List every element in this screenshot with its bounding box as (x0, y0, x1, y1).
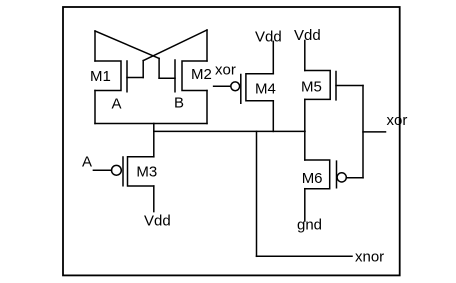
transistor M1 (95, 61, 127, 92)
wire M6 bubble lead (346, 177, 363, 179)
transistor M2 (175, 60, 207, 92)
svg-text:M3: M3 (136, 163, 157, 180)
svg-text:Vdd: Vdd (294, 27, 321, 44)
wire M5 Vdd riser (304, 41, 306, 71)
wire M3 source to Vdd (153, 186, 155, 212)
transistor M3 (123, 157, 154, 186)
wire M4 Vdd riser (272, 41, 274, 73)
wire M2 gate lead (159, 77, 175, 79)
wire M1 gate lead (127, 77, 143, 79)
svg-text:B: B (174, 95, 184, 112)
wire M6 source to gnd (304, 189, 306, 221)
svg-text:gnd: gnd (297, 217, 322, 234)
wire M4 source drop (272, 101, 274, 132)
wire xnor drop (256, 131, 258, 256)
svg-text:xor: xor (387, 112, 408, 129)
wire A input lead (93, 169, 111, 171)
wire cross-couple diagonal from M2 drain to M1 gate (143, 30, 207, 61)
wire M2 gate stub (158, 58, 160, 78)
svg-text:M1: M1 (90, 68, 111, 85)
wire M3 drain riser (153, 124, 155, 157)
wire M2 source drop (206, 91, 208, 124)
wire xnor line (257, 255, 353, 257)
wire M1 source drop (94, 91, 96, 124)
wire middle rail (154, 130, 305, 132)
svg-text:M2: M2 (191, 66, 212, 83)
wire M2 drain riser (206, 30, 208, 61)
svg-text:M6: M6 (302, 170, 323, 187)
wire M1 drain riser (94, 31, 96, 61)
wire M1 gate stub (142, 61, 144, 78)
transistor M4 (241, 74, 273, 104)
transistor M5 (305, 71, 336, 100)
M6 gate bubble (337, 173, 346, 182)
wire cross-couple diagonal from M1 drain to M2 gate (95, 31, 159, 58)
svg-text:A: A (112, 95, 122, 112)
wire gate rail M5-M6 (362, 86, 364, 178)
M4 gate bubble (231, 82, 240, 91)
svg-text:M4: M4 (255, 81, 276, 98)
svg-text:xor: xor (215, 62, 236, 79)
M3 gate bubble (112, 165, 122, 175)
svg-text:xnor: xnor (355, 248, 384, 265)
wire M5 gate lead (336, 85, 363, 87)
wire M5-M6 drain link (304, 99, 306, 160)
svg-text:M5: M5 (301, 79, 322, 96)
wire latch bottom (95, 123, 207, 125)
svg-text:A: A (82, 153, 92, 170)
transistor M6 (305, 160, 337, 189)
svg-text:Vdd: Vdd (144, 213, 171, 230)
svg-text:Vdd: Vdd (255, 28, 282, 45)
wire xor output tap (363, 131, 386, 133)
wire xor input lead (214, 85, 231, 87)
border frame (63, 7, 400, 275)
